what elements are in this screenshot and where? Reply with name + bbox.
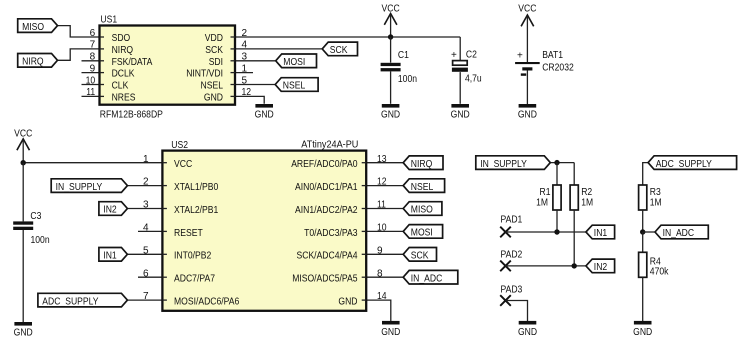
wire ADC_SUPPLY tip to column xyxy=(643,163,648,185)
svg-text:12: 12 xyxy=(242,87,252,98)
svg-text:6: 6 xyxy=(90,28,96,39)
svg-text:BAT1: BAT1 xyxy=(542,50,563,61)
power VCC above BAT1 xyxy=(518,4,536,27)
wire US2 right pin row 13 xyxy=(366,162,403,164)
power VCC above C1 xyxy=(382,3,400,25)
svg-text:7: 7 xyxy=(143,291,149,302)
wire VCC rail to C2 xyxy=(459,37,461,61)
wire IN_SUPPLY tip to junction xyxy=(550,162,574,164)
wire VCC to BAT1 xyxy=(526,16,528,62)
net flag MOSI xyxy=(276,54,317,68)
wire US2 right pin row 12 xyxy=(366,185,403,187)
pad PAD2 xyxy=(500,261,511,272)
svg-text:NSEL: NSEL xyxy=(283,81,306,92)
svg-text:5: 5 xyxy=(242,75,248,86)
wire C1 to ground xyxy=(390,72,392,104)
svg-text:US1: US1 xyxy=(100,15,117,26)
svg-text:INT0/PB2: INT0/PB2 xyxy=(174,251,212,262)
svg-text:GND: GND xyxy=(14,327,33,338)
svg-text:+: + xyxy=(451,50,457,61)
resistor R3 xyxy=(639,185,647,210)
wire R3 to junction xyxy=(642,210,644,232)
net flag IN2 at US2 xyxy=(99,202,128,216)
wire MISO flag to US1 pin 6 SDO xyxy=(58,26,100,37)
US1 pin 11 stub xyxy=(82,95,100,97)
net flag SCK xyxy=(322,42,357,56)
svg-text:4,7u: 4,7u xyxy=(465,74,482,85)
battery BAT1 CR2032 xyxy=(515,62,540,71)
svg-text:4: 4 xyxy=(242,40,248,51)
svg-text:3: 3 xyxy=(242,52,248,63)
svg-text:DCLK: DCLK xyxy=(112,69,135,80)
wire PAD1 to IN1 flag xyxy=(506,231,586,233)
svg-text:GND: GND xyxy=(255,109,274,120)
svg-text:3: 3 xyxy=(143,200,149,211)
svg-text:1M: 1M xyxy=(581,198,593,209)
wire ADC_SUPPLY flag to US2 pin 7 xyxy=(127,299,162,301)
US1 left pin names xyxy=(112,33,153,103)
svg-text:GND: GND xyxy=(381,327,400,338)
svg-text:SCK: SCK xyxy=(411,251,429,262)
net flag MISO at US2 xyxy=(403,202,442,216)
svg-text:NRES: NRES xyxy=(112,92,136,103)
svg-text:MOSI/ADC6/PA6: MOSI/ADC6/PA6 xyxy=(174,297,240,308)
svg-text:MISO: MISO xyxy=(411,205,433,216)
wire to R2 xyxy=(573,163,575,185)
svg-text:ADC_SUPPLY: ADC_SUPPLY xyxy=(656,159,712,170)
svg-text:PAD1: PAD1 xyxy=(501,215,523,226)
junction IN_SUPPLY at R1 xyxy=(554,160,559,165)
net flag IN2 xyxy=(586,259,615,273)
svg-text:SDO: SDO xyxy=(112,33,131,44)
svg-text:AIN1/ADC2/PA2: AIN1/ADC2/PA2 xyxy=(295,205,358,216)
svg-text:470k: 470k xyxy=(650,266,670,277)
svg-text:MISO: MISO xyxy=(22,22,44,33)
svg-text:4: 4 xyxy=(143,223,149,234)
net flag NIRQ at US2 xyxy=(403,156,443,170)
net flag IN_SUPPLY right xyxy=(476,156,551,170)
ground under PAD3 xyxy=(518,321,537,338)
svg-text:14: 14 xyxy=(377,291,387,302)
svg-text:NSEL: NSEL xyxy=(201,81,224,92)
US2 left pin names xyxy=(174,159,240,307)
svg-text:11: 11 xyxy=(86,87,95,98)
US1 pin 10 stub xyxy=(82,84,100,86)
svg-text:SDI: SDI xyxy=(209,57,223,68)
US2 right pin names xyxy=(291,159,358,307)
svg-text:US2: US2 xyxy=(171,140,188,151)
junction R2 PAD2 xyxy=(572,263,577,268)
svg-text:1M: 1M xyxy=(650,198,662,209)
power VCC bottom left xyxy=(14,129,32,151)
wire US1 GND pin 12 to ground xyxy=(235,96,264,103)
wire US2 right pin row 9 xyxy=(366,253,403,255)
svg-text:+: + xyxy=(517,51,523,62)
ground under R4 xyxy=(633,321,652,338)
svg-text:AREF/ADC0/PA0: AREF/ADC0/PA0 xyxy=(291,159,358,170)
svg-text:11: 11 xyxy=(377,200,386,211)
ground under C3 xyxy=(14,322,33,338)
svg-text:RESET: RESET xyxy=(174,228,203,239)
wire junction to R4 xyxy=(642,232,644,252)
svg-text:C1: C1 xyxy=(398,50,409,61)
svg-text:12: 12 xyxy=(377,177,387,188)
net flag IN1 at US2 xyxy=(99,248,128,262)
junction R1 PAD1 xyxy=(554,229,559,234)
wire IN2 flag to US2 pin 3 xyxy=(127,208,162,210)
svg-text:ATtiny24A-PU: ATtiny24A-PU xyxy=(301,140,358,151)
wire PAD2 to IN2 flag xyxy=(506,265,586,267)
wire R4 to ground xyxy=(642,277,644,321)
svg-text:GND: GND xyxy=(338,297,357,308)
wire US2 right pin row 8 xyxy=(366,276,403,278)
IC US2 ATtiny24A-PU box xyxy=(162,151,366,311)
wire US1 VDD pin 2 to VCC rail xyxy=(235,36,460,38)
wire R1 to PAD1 net xyxy=(556,210,558,232)
wire VCC to junction xyxy=(390,15,392,38)
US2 right pin numbers xyxy=(377,154,387,302)
svg-text:GND: GND xyxy=(518,109,537,120)
svg-text:10: 10 xyxy=(377,223,387,234)
wire NIRQ flag to US1 pin 7 NIRQ xyxy=(58,49,100,60)
net flag IN_ADC at US2 xyxy=(403,270,458,284)
svg-text:6: 6 xyxy=(143,268,149,279)
svg-text:VCC: VCC xyxy=(174,159,192,170)
wire junction to R1 xyxy=(556,163,558,185)
svg-text:MOSI: MOSI xyxy=(411,228,433,239)
wire C3 to ground xyxy=(22,230,24,322)
svg-text:ADC7/PA7: ADC7/PA7 xyxy=(174,274,215,285)
svg-text:XTAL1/PB0: XTAL1/PB0 xyxy=(174,182,219,193)
svg-text:IN_ADC: IN_ADC xyxy=(411,273,443,284)
wire IN_SUPPLY flag to US2 pin 2 xyxy=(127,185,162,187)
svg-text:2: 2 xyxy=(143,177,149,188)
pad PAD1 xyxy=(500,227,511,238)
BAT1 minus sign xyxy=(521,73,526,75)
US1 pin 8 stub xyxy=(82,60,100,62)
svg-text:8: 8 xyxy=(90,52,96,63)
svg-text:VCC: VCC xyxy=(518,4,536,15)
svg-text:ADC_SUPPLY: ADC_SUPPLY xyxy=(42,296,98,307)
svg-text:AIN0/ADC1/PA1: AIN0/ADC1/PA1 xyxy=(295,182,358,193)
svg-text:C3: C3 xyxy=(30,211,41,222)
capacitor C1 plates xyxy=(381,63,401,72)
resistor R1 xyxy=(553,185,561,210)
svg-text:NIRQ: NIRQ xyxy=(112,45,134,56)
junction VCC rail at C1 xyxy=(388,34,393,39)
wire junction down to C1 xyxy=(390,37,392,63)
svg-text:9: 9 xyxy=(90,63,96,74)
US1 right pin numbers xyxy=(242,28,252,98)
svg-text:GND: GND xyxy=(451,109,470,120)
net flag ADC_SUPPLY right xyxy=(648,156,737,170)
wire PAD3 to ground xyxy=(506,301,528,322)
wire US2 GND pin 14 to ground xyxy=(366,300,391,321)
wire VCC down to junction xyxy=(22,140,24,163)
capacitor C3 plates xyxy=(13,221,33,230)
ground under US1 pin 12 xyxy=(255,104,274,120)
net flag IN_ADC right xyxy=(655,225,708,239)
capacitor C2 polarized plates xyxy=(452,61,468,72)
svg-text:IN2: IN2 xyxy=(594,262,608,273)
svg-text:C2: C2 xyxy=(466,50,477,61)
net flag NIRQ xyxy=(18,54,58,68)
net flag NSEL at US2 xyxy=(403,179,444,193)
svg-text:NIRQ: NIRQ xyxy=(411,159,433,170)
net flag MOSI at US2 xyxy=(403,225,442,239)
wire US2 right pin row 10 xyxy=(366,230,403,232)
svg-text:GND: GND xyxy=(381,109,400,120)
svg-text:IN_ADC: IN_ADC xyxy=(663,228,695,239)
svg-text:1: 1 xyxy=(143,154,149,165)
US2 pin ticks xyxy=(162,163,366,300)
wire VCC junction to US2 pin 1 xyxy=(23,162,162,164)
svg-text:MISO/ADC5/PA5: MISO/ADC5/PA5 xyxy=(292,274,358,285)
US1 pin 9 stub xyxy=(82,72,100,74)
net flag IN_SUPPLY at US2 xyxy=(51,179,127,193)
svg-text:PAD3: PAD3 xyxy=(501,284,523,295)
ground under C2 xyxy=(451,104,470,120)
svg-text:SCK/ADC4/PA4: SCK/ADC4/PA4 xyxy=(297,251,358,262)
wire junction down to C3 xyxy=(22,163,24,222)
US2 pin 6 ADC7 stub xyxy=(138,276,162,278)
svg-text:1: 1 xyxy=(242,63,248,74)
svg-text:1M: 1M xyxy=(536,198,548,209)
svg-text:NSEL: NSEL xyxy=(411,182,434,193)
resistor R4 xyxy=(639,252,647,277)
US1 pin ticks xyxy=(100,37,236,96)
svg-text:RFM12B-868DP: RFM12B-868DP xyxy=(100,110,163,121)
svg-text:IN2: IN2 xyxy=(103,205,117,216)
wire US1 NSEL pin 5 to NSEL flag xyxy=(235,84,275,86)
svg-text:10: 10 xyxy=(86,75,96,86)
svg-text:IN_SUPPLY: IN_SUPPLY xyxy=(56,182,103,193)
net flag NSEL xyxy=(275,78,318,92)
svg-text:13: 13 xyxy=(377,154,387,165)
svg-text:FSK/DATA: FSK/DATA xyxy=(112,57,153,68)
junction R3 R4 IN_ADC xyxy=(640,229,645,234)
svg-text:T0/ADC3/PA3: T0/ADC3/PA3 xyxy=(304,228,358,239)
svg-text:GND: GND xyxy=(518,327,537,338)
svg-text:SCK: SCK xyxy=(330,45,348,56)
svg-text:CLK: CLK xyxy=(112,81,129,92)
net flag MISO xyxy=(18,19,58,33)
svg-text:CR2032: CR2032 xyxy=(542,63,574,74)
wire R2 to PAD2 net xyxy=(573,210,575,266)
svg-text:8: 8 xyxy=(377,268,383,279)
US1 pin 1 NINT/VDI stub xyxy=(235,72,253,74)
IC US1 RFM12B-868DP box xyxy=(100,26,236,105)
svg-text:IN1: IN1 xyxy=(594,228,608,239)
ground under C1 xyxy=(381,104,400,120)
svg-text:2: 2 xyxy=(242,28,248,39)
wire US2 right pin row 11 xyxy=(366,208,403,210)
svg-text:VDD: VDD xyxy=(205,33,223,44)
svg-text:PAD2: PAD2 xyxy=(501,249,523,260)
pad PAD3 xyxy=(500,295,511,306)
svg-text:5: 5 xyxy=(143,245,149,256)
net flag ADC_SUPPLY at US2 xyxy=(38,293,128,307)
svg-text:100n: 100n xyxy=(31,235,50,246)
svg-text:IN_SUPPLY: IN_SUPPLY xyxy=(480,159,527,170)
svg-text:NIRQ: NIRQ xyxy=(22,57,44,68)
svg-text:100n: 100n xyxy=(398,74,417,85)
svg-text:7: 7 xyxy=(90,40,96,51)
svg-text:GND: GND xyxy=(633,327,652,338)
resistor R2 xyxy=(570,185,578,210)
wire US1 SDI pin 3 to MOSI flag xyxy=(235,60,276,62)
net flag SCK at US2 xyxy=(403,248,436,262)
svg-text:MOSI: MOSI xyxy=(283,57,305,68)
junction VCC at C3 xyxy=(21,160,26,165)
net flag IN1 xyxy=(586,225,615,239)
US2 pin 4 RESET stub xyxy=(138,230,162,232)
svg-text:NINT/VDI: NINT/VDI xyxy=(186,69,223,80)
wire IN1 flag to US2 pin 5 xyxy=(127,253,162,255)
svg-text:9: 9 xyxy=(377,245,383,256)
wire junction to IN_ADC flag xyxy=(643,231,655,233)
US2 left pin numbers xyxy=(143,154,149,302)
svg-text:IN1: IN1 xyxy=(103,251,117,262)
ground under US2 pin 14 xyxy=(381,321,400,338)
wire C2 to ground xyxy=(459,72,461,104)
svg-text:SCK: SCK xyxy=(205,45,223,56)
US1 left pin numbers xyxy=(86,28,96,98)
wire BAT1 to ground xyxy=(526,71,528,105)
ground under BAT1 xyxy=(518,104,537,120)
svg-text:GND: GND xyxy=(204,92,223,103)
wire US1 SCK pin 4 to SCK flag xyxy=(235,48,322,50)
svg-text:XTAL2/PB1: XTAL2/PB1 xyxy=(174,205,219,216)
US1 right pin names xyxy=(186,33,223,103)
